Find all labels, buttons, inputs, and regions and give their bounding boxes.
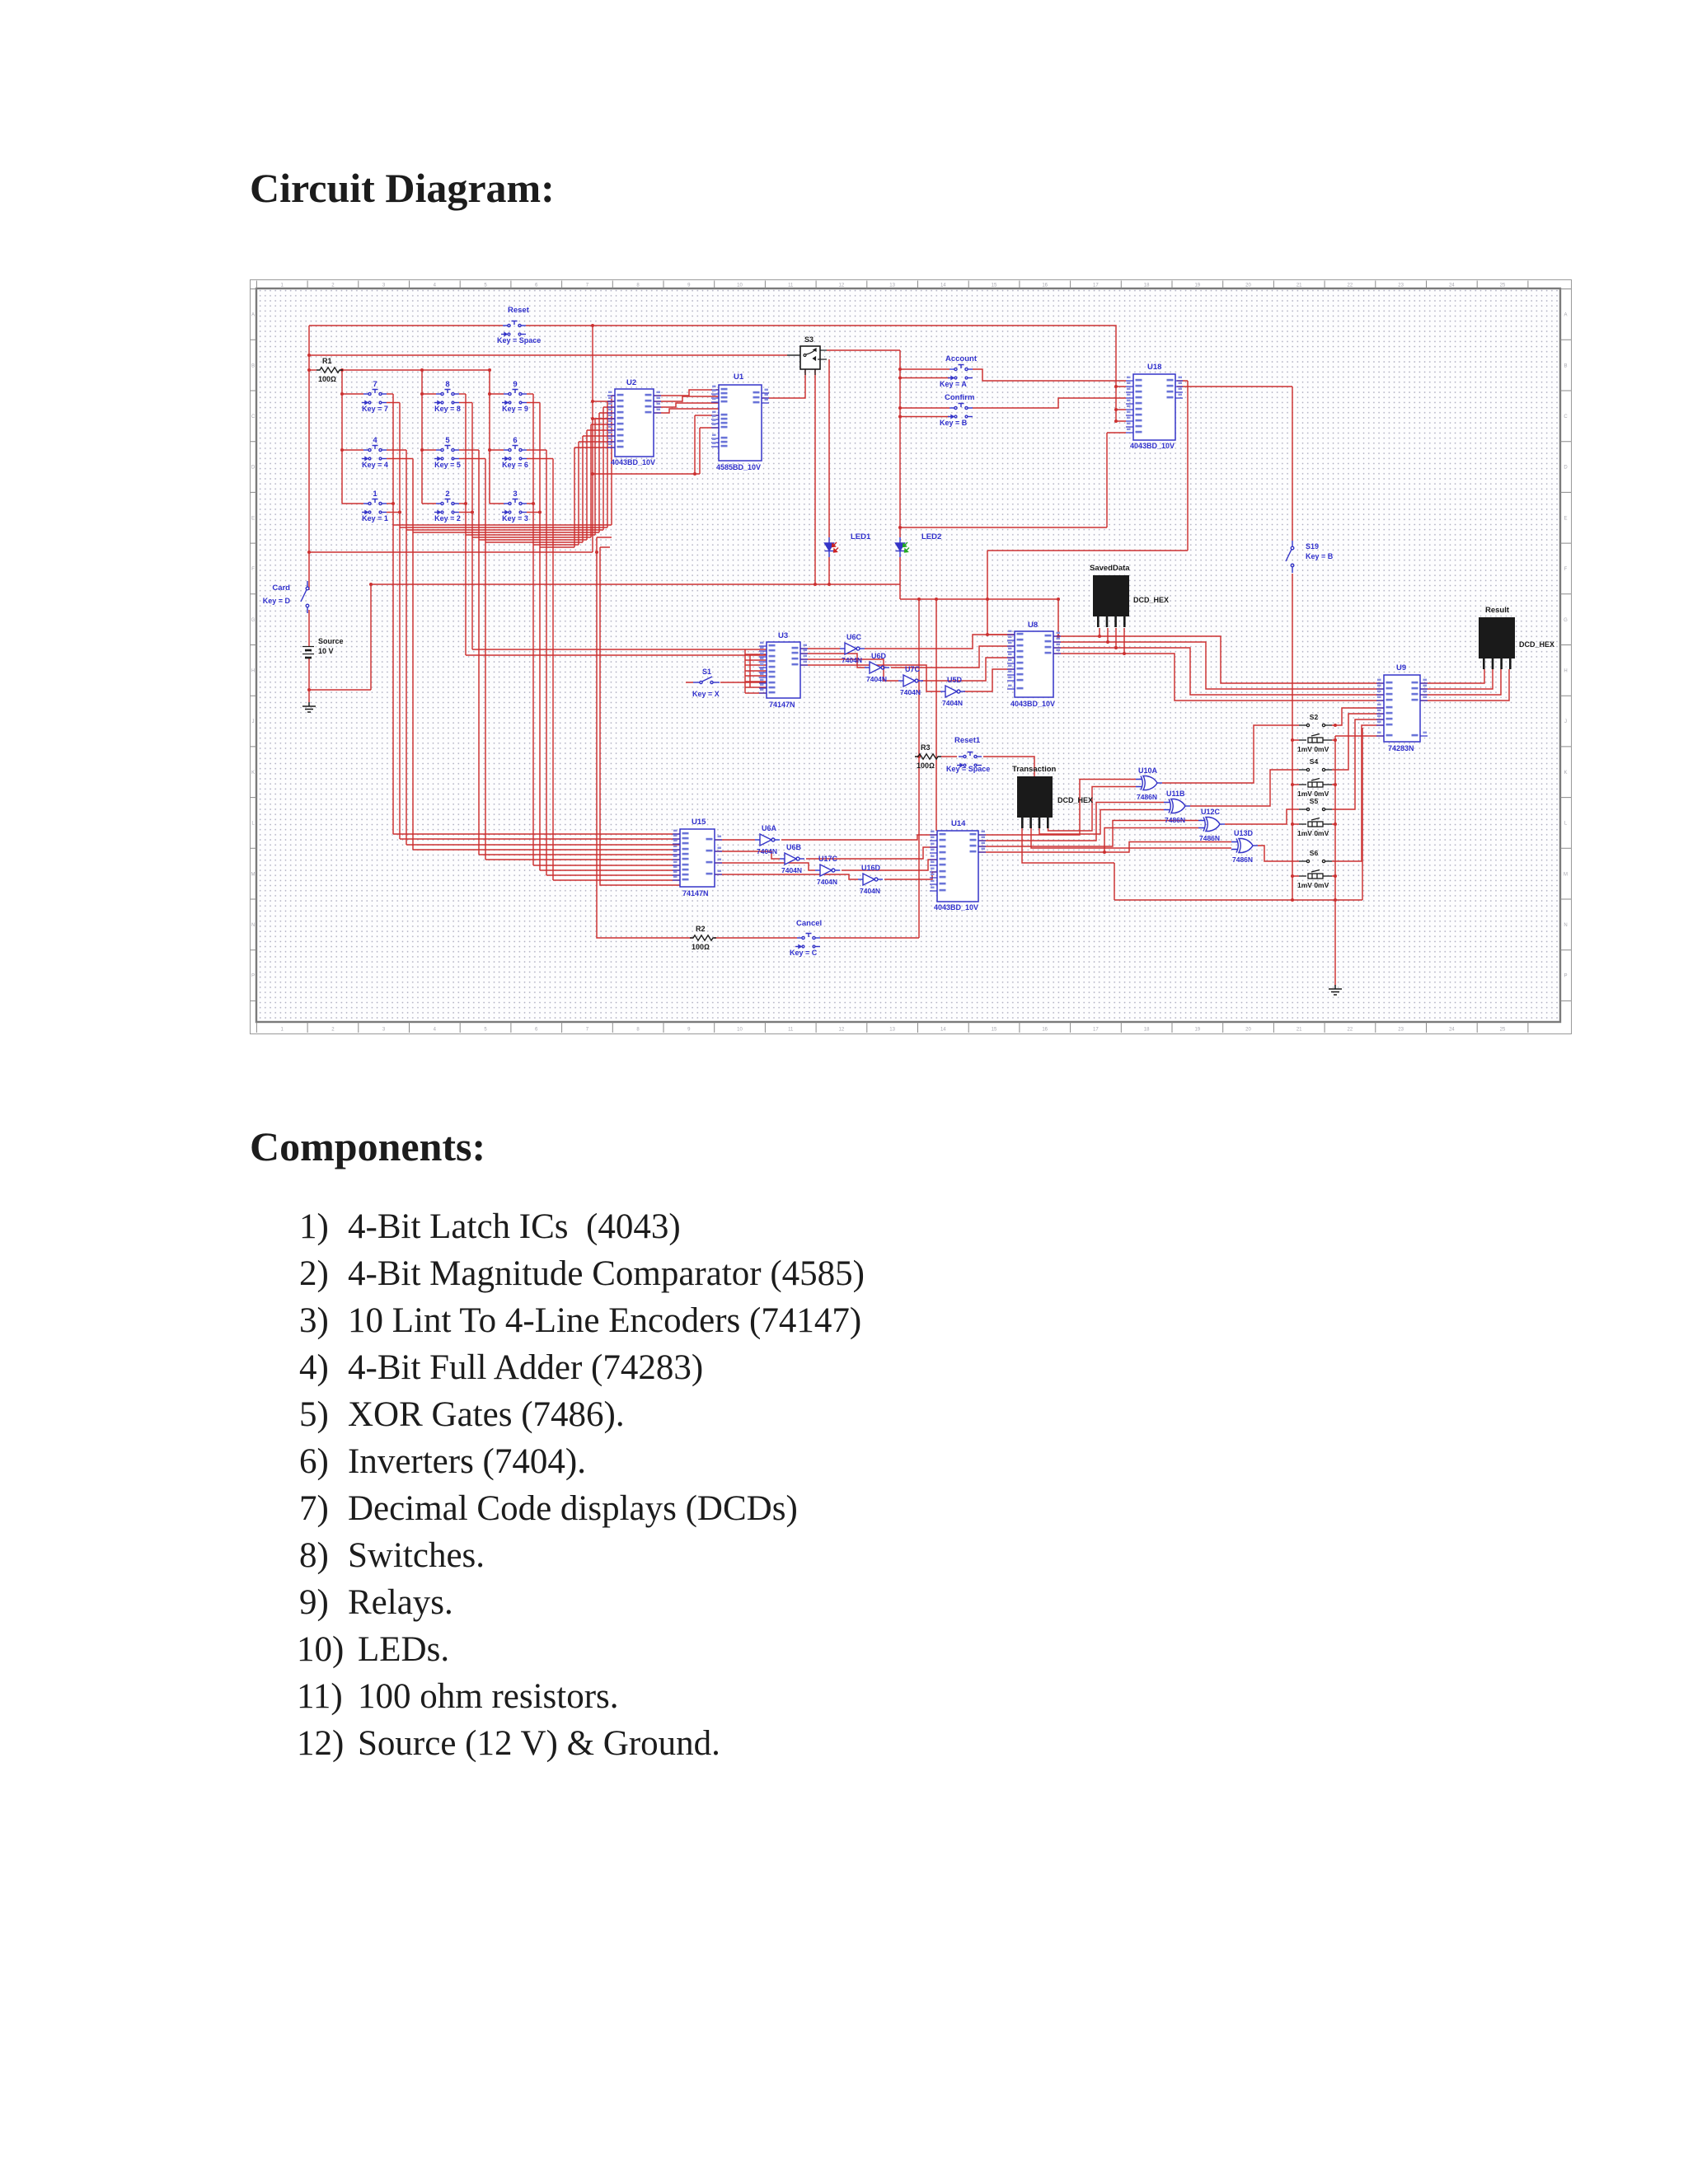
svg-text:16: 16 — [1042, 284, 1048, 288]
switch Cancel — [795, 934, 820, 949]
svg-text:S2: S2 — [1310, 713, 1319, 721]
DCD display Transaction — [1017, 776, 1053, 818]
wire: rail y431 from R1 junction to S3 — [309, 354, 787, 356]
svg-text:Reset: Reset — [508, 306, 530, 315]
svg-text:U9: U9 — [1396, 663, 1406, 673]
wire: R1 output to keypad columns — [343, 369, 490, 371]
wire: Card switch to Source battery — [308, 610, 310, 646]
svg-text:4: 4 — [373, 436, 377, 445]
svg-text:LED2: LED2 — [921, 532, 941, 541]
IC U3 74147N encoder — [767, 642, 800, 698]
switch key 2 — [434, 499, 459, 514]
wire: U1 output to S3 left leg — [762, 369, 805, 398]
wire: R3 to Reset1 to Transaction — [941, 757, 1034, 776]
svg-text:B: B — [1564, 363, 1567, 368]
resistor R2 — [690, 935, 716, 940]
wire: key 5 left stub — [422, 449, 436, 451]
wire: left power rail vertical — [308, 326, 310, 590]
switch Card — [301, 581, 309, 613]
svg-text:10 V: 10 V — [318, 647, 334, 655]
svg-text:22: 22 — [1348, 1028, 1353, 1033]
svg-text:U6B: U6B — [786, 843, 802, 851]
wire: battery return rail — [309, 584, 371, 690]
svg-text:U6A: U6A — [762, 824, 777, 832]
IC U15 74147N encoder — [680, 829, 715, 887]
wire: key 8 left stub — [422, 393, 436, 395]
wire: relay contacts to U9 inputs — [1332, 708, 1384, 725]
wire: Result display legs to U9 outputs — [1420, 669, 1509, 701]
svg-text:U14: U14 — [951, 819, 966, 828]
wire: SavedData display legs to U8 outputs — [1100, 628, 1124, 654]
svg-text:Key = 8: Key = 8 — [434, 405, 461, 413]
svg-text:7486N: 7486N — [1137, 793, 1157, 801]
svg-text:S6: S6 — [1310, 849, 1319, 857]
wire: Account switch to U18 — [973, 369, 1126, 381]
junction dots — [307, 354, 311, 357]
svg-text:U13D: U13D — [1234, 829, 1254, 837]
svg-text:14: 14 — [940, 284, 946, 288]
XOR gate U12C — [1198, 818, 1225, 832]
schematic panel — [250, 279, 1572, 1034]
svg-text:Result: Result — [1485, 606, 1510, 615]
switch Reset1 — [957, 752, 982, 767]
svg-text:3: 3 — [513, 490, 517, 499]
inverter U5D — [940, 686, 965, 697]
svg-text:Source: Source — [318, 637, 344, 645]
svg-text:20: 20 — [1245, 1028, 1251, 1033]
wire: rail A y709 — [371, 583, 900, 585]
wire: extra U15 feed — [600, 547, 680, 885]
svg-text:7404N: 7404N — [842, 656, 862, 664]
resistor R1 — [316, 368, 343, 373]
wire: S3 left black stub — [787, 354, 800, 356]
wire: key 6 left stub — [490, 449, 504, 451]
switch Account — [948, 365, 973, 380]
svg-text:7486N: 7486N — [1165, 816, 1185, 824]
svg-text:18: 18 — [1144, 284, 1150, 288]
wire: U3 encoder input fan — [745, 649, 750, 693]
svg-text:Key = 6: Key = 6 — [502, 461, 528, 469]
svg-text:Key = 9: Key = 9 — [502, 405, 528, 413]
inverter U6C — [840, 643, 865, 654]
svg-text:4043BD_10V: 4043BD_10V — [1010, 700, 1055, 708]
svg-text:DCD_HEX: DCD_HEX — [1133, 596, 1169, 604]
wire: relay coils to ground rail — [1332, 740, 1335, 876]
svg-text:F: F — [1564, 567, 1568, 572]
wire: XOR outputs to relay contacts — [1162, 725, 1299, 783]
relay S2 — [1299, 724, 1332, 743]
switch Reset — [501, 321, 526, 336]
svg-text:21: 21 — [1296, 1028, 1302, 1033]
svg-text:H: H — [1564, 669, 1567, 674]
svg-text:S4: S4 — [1310, 757, 1319, 766]
svg-text:23: 23 — [1398, 1028, 1404, 1033]
schematic sheet frame and rulers — [251, 280, 1572, 1034]
wire: cancel feed vertical — [597, 537, 693, 938]
IC U1 4585BD_10V comparator — [719, 385, 762, 461]
svg-text:Confirm: Confirm — [945, 393, 974, 402]
svg-text:100Ω: 100Ω — [318, 375, 336, 383]
switch S19 — [1286, 541, 1294, 573]
svg-text:7404N: 7404N — [860, 887, 880, 895]
relay S4 — [1299, 768, 1332, 787]
switch S3 selector box — [800, 346, 820, 369]
svg-text:100Ω: 100Ω — [692, 943, 710, 951]
wire: coil return loop — [1114, 728, 1362, 900]
wire: Source battery to ground — [308, 658, 310, 702]
svg-text:17: 17 — [1093, 284, 1099, 288]
svg-text:N: N — [251, 923, 255, 928]
wire: key 1 left stub — [342, 503, 363, 504]
title: Circuit Diagram — [250, 164, 555, 212]
svg-text:4043BD_10V: 4043BD_10V — [934, 903, 978, 912]
inverter U6D — [865, 662, 889, 673]
svg-text:U17C: U17C — [818, 855, 838, 863]
svg-text:C: C — [251, 415, 256, 419]
svg-text:R2: R2 — [696, 925, 706, 933]
IC U2 4043BD_10V latch — [615, 389, 654, 457]
svg-text:DCD_HEX: DCD_HEX — [1519, 640, 1554, 649]
XOR gate U10A — [1136, 776, 1162, 790]
wire: reset riser x719 — [592, 326, 593, 552]
svg-text:10: 10 — [737, 284, 743, 288]
relay S5 — [1299, 808, 1332, 827]
svg-text:J: J — [252, 719, 255, 724]
svg-text:7486N: 7486N — [1232, 855, 1253, 864]
svg-text:20: 20 — [1245, 284, 1251, 288]
svg-text:15: 15 — [992, 284, 997, 288]
svg-text:K: K — [1564, 771, 1567, 776]
wire: keypad output verticals to encoders — [393, 394, 680, 834]
heading: Components — [250, 1122, 485, 1170]
svg-text:12: 12 — [839, 1028, 845, 1033]
svg-text:LED1: LED1 — [851, 532, 871, 541]
wire: key 4 left stub — [342, 449, 363, 451]
wire: key 9 left stub — [490, 393, 504, 395]
svg-text:7486N: 7486N — [1199, 834, 1220, 842]
svg-text:Key = 3: Key = 3 — [502, 514, 528, 523]
switch key 3 — [502, 499, 527, 514]
wire: left rail to Reset switch — [309, 325, 503, 326]
wire: keypad switch output stubs — [387, 393, 393, 395]
svg-text:13: 13 — [889, 284, 895, 288]
XOR gate U11B — [1164, 799, 1190, 813]
inverter U17C — [815, 865, 840, 876]
switch Confirm — [948, 404, 973, 419]
svg-text:24: 24 — [1449, 284, 1455, 288]
wire: keypad column 2 feed vertical — [421, 370, 423, 504]
wire: rail y670 below keypad — [309, 551, 593, 553]
svg-text:9: 9 — [513, 380, 517, 389]
svg-text:1: 1 — [373, 490, 377, 499]
svg-text:Key = B: Key = B — [1306, 552, 1334, 560]
svg-text:Reset1: Reset1 — [954, 736, 981, 745]
svg-text:P: P — [1564, 974, 1567, 979]
svg-text:Key = 5: Key = 5 — [434, 461, 461, 469]
switch key 9 — [502, 390, 527, 405]
svg-text:G: G — [251, 618, 256, 623]
ground (output) — [1329, 985, 1342, 995]
switch key 5 — [434, 446, 459, 461]
wire: LED2 top junction to U18 E0 pin — [900, 433, 1126, 527]
svg-text:4043BD_10V: 4043BD_10V — [1130, 442, 1175, 450]
wire: U18 output to S19 — [1177, 387, 1292, 541]
svg-text:74147N: 74147N — [769, 701, 795, 709]
wire: Reset output to U18 column — [526, 326, 1126, 387]
inverter U6A — [755, 834, 780, 846]
wire: U18 input column stubs — [1116, 387, 1126, 421]
svg-text:25: 25 — [1500, 1028, 1506, 1033]
svg-text:U1: U1 — [734, 373, 744, 382]
svg-text:17: 17 — [1093, 1028, 1099, 1033]
svg-text:P: P — [251, 974, 255, 979]
svg-text:1mV 0mV: 1mV 0mV — [1297, 829, 1329, 837]
svg-text:J: J — [1564, 719, 1567, 724]
svg-text:7: 7 — [373, 380, 377, 389]
wire: branch from y727 to U8 bundle — [987, 599, 1058, 636]
wire: keypad bus lines rising to U2 — [393, 396, 615, 525]
LED LED1 — [825, 537, 834, 557]
svg-text:2: 2 — [445, 490, 449, 499]
wire: S19 lower net — [1292, 574, 1293, 900]
IC U14 4043BD_10V latch — [937, 831, 978, 902]
svg-text:S19: S19 — [1306, 542, 1319, 551]
svg-text:Transaction: Transaction — [1012, 765, 1057, 774]
DCD display Result — [1479, 617, 1515, 658]
svg-text:U6C: U6C — [846, 633, 862, 641]
inverter U7C — [898, 675, 923, 687]
wire: Transaction display legs to XOR gates and loop — [1022, 827, 1114, 863]
svg-text:A: A — [251, 313, 255, 318]
svg-text:C: C — [1564, 415, 1568, 419]
wire: S3 pin1 to LED2 and key switches — [827, 350, 900, 537]
wire: key 2 left stub — [422, 503, 436, 504]
svg-text:100Ω: 100Ω — [917, 762, 935, 770]
svg-text:Account: Account — [945, 354, 978, 363]
svg-text:Key = X: Key = X — [692, 690, 720, 698]
svg-text:10: 10 — [737, 1028, 743, 1033]
svg-text:B: B — [251, 363, 255, 368]
DCD display SavedData — [1093, 575, 1129, 616]
svg-text:DCD_HEX: DCD_HEX — [1057, 796, 1093, 804]
svg-text:Key = Space: Key = Space — [946, 765, 990, 773]
switch key 7 — [362, 390, 387, 405]
svg-text:Card: Card — [272, 583, 290, 593]
svg-text:7404N: 7404N — [942, 699, 963, 707]
svg-text:Cancel: Cancel — [796, 919, 822, 928]
svg-text:7404N: 7404N — [817, 878, 837, 886]
wire: y727 drop to U14 top corner — [935, 599, 937, 831]
wire: U18 output loop down to U8 pin1 — [987, 381, 1188, 635]
svg-text:Key = Space: Key = Space — [497, 336, 541, 344]
ground (source) — [302, 702, 316, 712]
svg-text:7404N: 7404N — [900, 688, 921, 696]
svg-text:Key = D: Key = D — [263, 597, 291, 605]
svg-text:F: F — [251, 567, 255, 572]
svg-text:K: K — [251, 771, 255, 776]
resistor R3 — [915, 754, 941, 759]
svg-text:19: 19 — [1194, 1028, 1200, 1033]
svg-text:S1: S1 — [702, 668, 711, 676]
svg-text:25: 25 — [1500, 284, 1506, 288]
svg-text:G: G — [1564, 618, 1568, 623]
svg-text:U11B: U11B — [1166, 790, 1185, 798]
svg-text:Key = C: Key = C — [790, 949, 818, 957]
svg-text:74283N: 74283N — [1388, 744, 1414, 752]
svg-text:E: E — [1564, 516, 1567, 521]
wire: reset branch to U1 lower pins — [593, 415, 719, 474]
svg-text:Key = 1: Key = 1 — [362, 514, 388, 523]
svg-text:8: 8 — [445, 380, 449, 389]
svg-text:U7C: U7C — [905, 665, 921, 673]
svg-text:U5D: U5D — [947, 676, 963, 684]
wire: LED bottom leads to rail A — [829, 557, 900, 584]
svg-text:U10A: U10A — [1138, 766, 1158, 775]
svg-text:11: 11 — [788, 284, 794, 288]
svg-text:Key = B: Key = B — [940, 419, 968, 427]
wire: U8 outputs to U9 inputs — [1053, 636, 1384, 683]
svg-text:74147N: 74147N — [682, 889, 709, 898]
svg-text:4043BD_10V: 4043BD_10V — [611, 458, 655, 466]
svg-text:13: 13 — [889, 1028, 895, 1033]
wire: R1 feed stub — [309, 369, 316, 371]
svg-text:6: 6 — [513, 436, 517, 445]
IC U9 74283N adder — [1384, 675, 1420, 742]
svg-text:7404N: 7404N — [866, 675, 887, 683]
svg-text:22: 22 — [1348, 284, 1353, 288]
inverter U16D — [858, 874, 883, 885]
svg-text:7404N: 7404N — [781, 866, 802, 874]
wire: S1 to U3 — [686, 682, 767, 683]
svg-text:M: M — [251, 872, 256, 877]
svg-text:1mV 0mV: 1mV 0mV — [1297, 881, 1329, 889]
svg-text:N: N — [1564, 923, 1567, 928]
svg-text:A: A — [1564, 313, 1567, 318]
wire: S3 right leg to rail A — [814, 369, 816, 584]
svg-text:1mV 0mV: 1mV 0mV — [1297, 745, 1329, 753]
svg-text:U8: U8 — [1028, 621, 1038, 630]
wire: U14 outputs to XOR gates — [978, 780, 1136, 836]
wire: key 3 left stub — [490, 503, 504, 504]
svg-text:21: 21 — [1296, 284, 1302, 288]
wire: R3 and Cancel column — [918, 599, 920, 938]
wire: S3 pin2 to LED1 — [828, 359, 830, 537]
svg-text:H: H — [251, 669, 255, 674]
svg-text:S5: S5 — [1310, 797, 1319, 805]
svg-text:14: 14 — [940, 1028, 946, 1033]
wire: U3 outputs through inverter chain to U8 — [800, 648, 840, 649]
IC U8 4043BD_10V latch — [1015, 631, 1053, 697]
svg-text:19: 19 — [1194, 284, 1200, 288]
svg-text:R1: R1 — [322, 357, 332, 365]
svg-text:U12C: U12C — [1201, 808, 1221, 816]
svg-text:4585BD_10V: 4585BD_10V — [716, 463, 761, 471]
svg-text:E: E — [251, 516, 255, 521]
svg-text:16: 16 — [1042, 1028, 1048, 1033]
LED LED2 — [896, 537, 905, 557]
relay S6 — [1299, 860, 1332, 879]
wire: Cancel net — [714, 937, 919, 939]
source battery V1 — [302, 647, 314, 658]
svg-text:S3: S3 — [804, 335, 814, 344]
switch key 1 — [362, 499, 387, 514]
svg-text:23: 23 — [1398, 284, 1404, 288]
wire: keypad column 1 feed vertical — [341, 370, 343, 504]
wire: key 7 left stub — [342, 393, 363, 395]
inverter U6B — [780, 853, 804, 865]
XOR gate U13D — [1231, 839, 1258, 853]
switch S1 — [693, 677, 720, 684]
wire: reset stubs into U2 — [593, 401, 615, 419]
wire: U2 outputs to U1 inputs — [654, 390, 719, 396]
svg-text:Key = A: Key = A — [940, 380, 967, 388]
svg-text:7404N: 7404N — [757, 847, 777, 855]
svg-text:Key = 4: Key = 4 — [362, 461, 388, 469]
wire: keypad column 3 feed vertical — [489, 370, 490, 504]
svg-text:U16D: U16D — [861, 864, 881, 872]
svg-text:M: M — [1564, 872, 1568, 877]
svg-text:D: D — [251, 466, 256, 471]
svg-text:Key = 2: Key = 2 — [434, 514, 461, 523]
wire: ground rail — [1335, 736, 1384, 985]
wire: rail A corner down to y727 — [900, 584, 987, 599]
IC U18 4043BD_10V latch — [1133, 374, 1175, 440]
svg-text:U3: U3 — [778, 631, 788, 640]
svg-text:18: 18 — [1144, 1028, 1150, 1033]
svg-text:U2: U2 — [626, 378, 636, 387]
svg-text:11: 11 — [788, 1028, 794, 1033]
svg-text:24: 24 — [1449, 1028, 1455, 1033]
switch key 4 — [362, 446, 387, 461]
wire: Confirm switch to U18 — [973, 398, 1126, 408]
switch key 6 — [502, 446, 527, 461]
svg-text:Key = 7: Key = 7 — [362, 405, 388, 413]
svg-text:5: 5 — [445, 436, 450, 445]
svg-text:U6D: U6D — [871, 652, 887, 660]
components list — [299, 1207, 329, 1247]
svg-text:15: 15 — [992, 1028, 997, 1033]
svg-text:U18: U18 — [1147, 363, 1161, 372]
svg-text:U15: U15 — [692, 818, 706, 827]
svg-text:R3: R3 — [921, 743, 931, 752]
svg-text:12: 12 — [839, 284, 845, 288]
svg-text:D: D — [1564, 466, 1568, 471]
svg-text:SavedData: SavedData — [1090, 564, 1130, 573]
switch key 8 — [434, 390, 459, 405]
wire: U15 outputs through inverter chain to U14 — [715, 839, 755, 841]
